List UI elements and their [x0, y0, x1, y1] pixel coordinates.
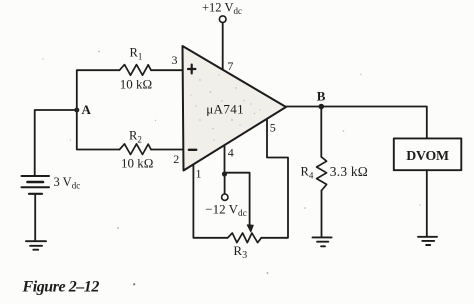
- wire R1 to pin 3: [151, 69, 183, 71]
- wire battery to ground: [34, 194, 36, 241]
- svg-text:μA741: μA741: [206, 101, 244, 116]
- resistor R2: [120, 144, 152, 155]
- battery B1 3V plate long top: [22, 175, 50, 177]
- svg-text:A: A: [82, 102, 92, 117]
- node A: [74, 108, 79, 113]
- wire junction to R3 wiper: [225, 173, 250, 226]
- svg-text:B: B: [317, 88, 326, 103]
- svg-text:5: 5: [270, 121, 276, 135]
- ground R4: [313, 237, 332, 246]
- wire node B to R4: [320, 107, 322, 158]
- svg-text:3.3 kΩ: 3.3 kΩ: [330, 164, 368, 179]
- DVOM box: [394, 138, 462, 170]
- wire DVOM to ground: [426, 170, 428, 236]
- resistor R4: [317, 157, 327, 191]
- wiper arrowhead of R3: [247, 225, 253, 232]
- junction on pin 4 wire: [222, 171, 227, 176]
- svg-text:4: 4: [228, 146, 234, 160]
- terminal -12Vdc: [222, 194, 228, 200]
- battery B1 plate short bottom: [29, 193, 42, 195]
- terminal +12Vdc: [219, 16, 226, 23]
- svg-text:10 kΩ: 10 kΩ: [121, 155, 153, 170]
- op-amp U1 uA741: [183, 46, 287, 171]
- wire output apex to DVOM: [286, 107, 427, 139]
- svg-text:3: 3: [172, 53, 178, 67]
- wire pin 1 to R3 left: [193, 165, 227, 237]
- wire node A to R2: [77, 110, 120, 150]
- svg-text:7: 7: [227, 59, 233, 73]
- svg-text:2: 2: [173, 152, 179, 166]
- svg-text:Figure 2–12: Figure 2–12: [22, 279, 100, 296]
- plus sign at pin 3 input: [188, 65, 195, 74]
- battery B1 plate long: [22, 186, 50, 188]
- wire pin 4 to junction: [224, 146, 226, 172]
- svg-text:10 kΩ: 10 kΩ: [120, 76, 152, 91]
- wire junction to -12V terminal: [224, 177, 226, 194]
- ground battery: [26, 241, 46, 250]
- resistor R1: [120, 65, 152, 76]
- minus sign at pin 2 input: [189, 149, 197, 151]
- ground DVOM: [418, 237, 437, 245]
- wire R4 to ground: [321, 191, 323, 238]
- svg-text:DVOM: DVOM: [406, 148, 449, 163]
- wire pin 5 to R3 right: [261, 120, 288, 238]
- wire +12V terminal to pin 7: [222, 23, 224, 70]
- svg-text:1: 1: [196, 167, 202, 181]
- node B: [319, 104, 325, 110]
- wire node A to R1: [77, 70, 120, 110]
- potentiometer R3: [228, 233, 262, 243]
- wire R2 to pin 2: [151, 149, 184, 151]
- wire node A to battery: [35, 110, 77, 176]
- battery B1 plate short: [28, 181, 44, 184]
